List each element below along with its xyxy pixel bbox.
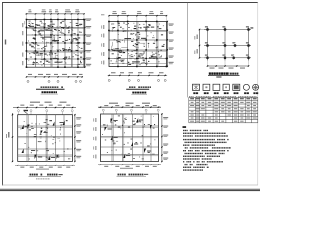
plan D bottom dimension chain: [15, 165, 75, 170]
plan B beam annotation text: [111, 23, 165, 66]
plan D top dimension chain: [13, 102, 76, 109]
content divider line: [187, 3, 189, 98]
notes text lines: [183, 130, 231, 171]
plan E internal grid: [101, 114, 159, 162]
plan D body outline: [18, 115, 73, 162]
plan A body outline: [27, 20, 85, 68]
plan D axis bubbles: [18, 110, 74, 115]
plan B body outline: [109, 22, 167, 67]
column section symbols row: [193, 84, 259, 90]
plan A internal grid: [27, 20, 85, 68]
column schedule table: [189, 97, 258, 122]
plan D corner leader mark: [24, 110, 29, 114]
plan E shear wall marks: [105, 118, 153, 158]
plan D annotation text: [20, 119, 70, 159]
plan E body outline: [101, 114, 159, 162]
plan C bottom dimension chain: [207, 61, 250, 69]
plan A bottom dimension chain: [26, 74, 83, 78]
plan B top dimension chain: [101, 11, 167, 21]
plan E top dimension chain: [98, 103, 161, 108]
plan B columns: [108, 21, 167, 67]
plan E axis bubbles: [102, 109, 159, 114]
plan E title: [117, 174, 149, 177]
column symbol labels: [193, 92, 258, 94]
plan A title: [36, 86, 65, 94]
plan C column marks: [205, 26, 253, 59]
plan D left dimension chain: [6, 113, 13, 162]
plan A right dimension chain: [84, 19, 91, 68]
plan E bottom dimension chain: [98, 164, 161, 169]
plan A top dimension chain: [26, 9, 85, 19]
plan D right dimension chain: [74, 114, 81, 162]
plan E annotation text: [102, 115, 156, 159]
plan B title: [126, 86, 151, 94]
plan B right dimension chain: [167, 21, 174, 68]
plan C grid lines: [204, 27, 251, 61]
plan D shear wall marks: [22, 121, 65, 161]
plan A beam annotation text: [28, 21, 83, 66]
plan E left dimension text: [93, 118, 96, 159]
plan E right dimension chain: [161, 113, 168, 162]
plan A left dimension text: [5, 21, 25, 65]
sheet border frame: [2, 2, 258, 186]
plan B internal grid: [109, 22, 167, 67]
plan C left dimension chain: [194, 29, 205, 59]
plan A columns: [26, 19, 85, 68]
plan D title: [29, 174, 63, 180]
plan B left dimension text: [101, 25, 104, 65]
plan B bottom axis bubbles: [108, 79, 166, 81]
plan C title: [208, 72, 240, 77]
page bottom edge band: [0, 189, 260, 192]
plan A bottom axis bubbles: [27, 80, 82, 82]
column symbol dimension text row: [189, 96, 257, 97]
plan B bottom dimension chain: [108, 72, 167, 76]
plan D internal grid: [18, 115, 73, 162]
notes heading: [183, 126, 187, 128]
